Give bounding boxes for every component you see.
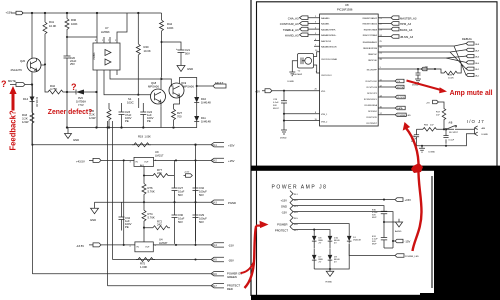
svg-text:R43: R43 bbox=[22, 113, 28, 117]
svg-text:0.1uF: 0.1uF bbox=[449, 140, 455, 142]
wire C27 col vertical bbox=[175, 160, 177, 202]
svg-text:Q18: Q18 bbox=[151, 81, 157, 85]
svg-text:+15V: +15V bbox=[6, 10, 13, 14]
connector J8 pin chevrons bbox=[290, 191, 293, 230]
wire power led bbox=[349, 244, 395, 256]
MCU box border U8 page bbox=[257, 2, 498, 167]
svg-text:RED: RED bbox=[227, 287, 233, 291]
node -15V right tag bbox=[393, 239, 403, 248]
resistor R43 bbox=[30, 107, 34, 129]
svg-text:RB6/PGC: RB6/PGC bbox=[368, 54, 377, 56]
clock data powerled tags bbox=[378, 97, 395, 115]
transistor Q20 2SA1276 bbox=[27, 58, 41, 72]
svg-text:MLP: MLP bbox=[372, 244, 377, 246]
diode D8 bbox=[312, 236, 317, 241]
capacitor C28 bbox=[281, 91, 287, 130]
svg-text:GND: GND bbox=[187, 67, 193, 71]
svg-text:1.00K: 1.00K bbox=[145, 136, 152, 139]
annotation long S curve arrow bbox=[406, 128, 422, 251]
svg-text:C29: C29 bbox=[199, 213, 205, 217]
svg-text:-15V: -15V bbox=[281, 211, 287, 215]
ic U8 PIC16F1936 body bbox=[320, 14, 379, 126]
resistor R19 bbox=[132, 143, 151, 147]
ground DGND io bbox=[419, 146, 425, 152]
wire Q20 emitter down bbox=[31, 72, 33, 95]
POWERAMP-PAGE bbox=[272, 184, 420, 283]
resistor mclr pullup R bbox=[435, 64, 461, 75]
ground HGND bbox=[326, 269, 334, 276]
resistor R40 bbox=[136, 13, 140, 57]
svg-text:GND: GND bbox=[281, 205, 287, 209]
annotation amp mute arrow bbox=[407, 81, 442, 91]
node J8-4 tag bbox=[211, 243, 224, 247]
svg-text:RB5/KBI1/PGM: RB5/KBI1/PGM bbox=[363, 48, 377, 50]
wire R72-U4 adj bbox=[143, 228, 145, 242]
svg-text:ADJ: ADJ bbox=[140, 164, 144, 167]
svg-text:Feedback?: Feedback? bbox=[9, 110, 18, 150]
svg-text:POWER AMP J8: POWER AMP J8 bbox=[272, 184, 328, 190]
black mask rectangle right of power amp page bbox=[434, 170, 500, 300]
svg-text:R36: R36 bbox=[71, 18, 77, 22]
capacitor E30 bbox=[381, 211, 387, 248]
svg-text:RA5/AN4/SS/LVD: RA5/AN4/SS/LVD bbox=[321, 46, 337, 49]
wire power-on line bbox=[32, 273, 211, 275]
svg-text:+5V: +5V bbox=[255, 90, 260, 94]
svg-text:AGND: AGND bbox=[395, 230, 402, 233]
resistor R42 bbox=[45, 64, 67, 94]
resistor R77 bbox=[151, 174, 174, 178]
wire U7 pin to +15 rail bbox=[96, 13, 98, 37]
svg-text:D10: D10 bbox=[201, 97, 207, 101]
svg-text:9V6: 9V6 bbox=[78, 96, 83, 100]
svg-text:243: 243 bbox=[157, 223, 162, 227]
svg-text:J8-6: J8-6 bbox=[212, 273, 217, 276]
thick divider bar bbox=[251, 166, 500, 171]
wire R40 down bbox=[137, 57, 139, 95]
svg-text:RB0/INT0/AN12: RB0/INT0/AN12 bbox=[363, 17, 378, 20]
svg-text:RC4/SDI/SDA: RC4/SDI/SDA bbox=[364, 104, 377, 107]
svg-text:PE: PE bbox=[147, 119, 151, 123]
svg-text:DGND: DGND bbox=[429, 152, 436, 154]
wire +43.5V to U9 bbox=[101, 159, 134, 161]
wire fault tag line bbox=[197, 85, 214, 87]
wire -43.5V to U4 bbox=[101, 244, 135, 246]
svg-text:C30: C30 bbox=[178, 213, 184, 217]
node +5V mclr tag bbox=[429, 68, 435, 70]
svg-text:25V: 25V bbox=[70, 62, 75, 66]
svg-text:R44: R44 bbox=[167, 22, 173, 26]
svg-text:+5V: +5V bbox=[426, 102, 430, 104]
svg-text:MLCC: MLCC bbox=[273, 108, 280, 110]
svg-text:R40: R40 bbox=[144, 45, 150, 49]
svg-text:HI-MID_A3: HI-MID_A3 bbox=[285, 34, 299, 38]
wire vert x123.7 bbox=[123, 160, 125, 245]
svg-text:10.0K: 10.0K bbox=[448, 78, 454, 80]
wire vert x195.5 bbox=[195, 145, 197, 242]
svg-text:S1: S1 bbox=[128, 97, 132, 101]
crystal Y1 circuit bbox=[298, 54, 314, 69]
wire U4 out to J8-4 bbox=[153, 244, 211, 246]
svg-text:100uF: 100uF bbox=[199, 190, 207, 194]
capacitor C30 bbox=[172, 202, 178, 244]
svg-text:100K: 100K bbox=[167, 26, 174, 30]
svg-text:50V: 50V bbox=[199, 220, 204, 224]
svg-text:OSC1/CLKI: OSC1/CLKI bbox=[321, 75, 332, 77]
svg-text:RC6/TX/CK: RC6/TX/CK bbox=[367, 117, 378, 119]
svg-text:RA2/AN2/VREF-: RA2/AN2/VREF- bbox=[321, 28, 336, 31]
svg-text:POWER_LED: POWER_LED bbox=[405, 256, 419, 258]
svg-text:RB2/INT2/AN8: RB2/INT2/AN8 bbox=[364, 28, 378, 31]
capacitor C34 bbox=[119, 202, 125, 230]
node J8-5 tag bbox=[211, 257, 224, 261]
capacitor C36 left bbox=[414, 129, 419, 144]
svg-text:10uF: 10uF bbox=[178, 190, 185, 194]
svg-text:GREEN: GREEN bbox=[227, 275, 237, 279]
wire io bottom bbox=[417, 134, 475, 146]
mclr pullup bbox=[378, 68, 435, 70]
svg-text:5.76K: 5.76K bbox=[148, 190, 155, 194]
bottom black bar bbox=[251, 295, 500, 300]
svg-text:PROTECT: PROTECT bbox=[227, 283, 240, 287]
svg-text:3.2K: 3.2K bbox=[22, 117, 28, 121]
svg-text:CHA_A3: CHA_A3 bbox=[288, 16, 299, 20]
svg-text:LM393: LM393 bbox=[101, 30, 110, 34]
wire protect vertical bbox=[107, 121, 109, 286]
svg-text:CONTOUR_A3: CONTOUR_A3 bbox=[280, 22, 299, 26]
svg-text:BASS_A3: BASS_A3 bbox=[400, 28, 413, 32]
output tags bbox=[391, 16, 399, 38]
resistor R36 bbox=[65, 13, 69, 37]
wire R43 down to gnd bus bbox=[31, 129, 33, 145]
svg-text:POWER_LED: POWER_LED bbox=[397, 115, 411, 117]
svg-text:100uF: 100uF bbox=[199, 217, 207, 221]
svg-text:RA3/AN3/VREF+: RA3/AN3/VREF+ bbox=[321, 34, 337, 37]
transistor Q19 bbox=[169, 83, 184, 98]
wire U7 out right bend bbox=[117, 13, 127, 37]
resistor R76 bbox=[142, 176, 146, 203]
wire R36 to C20 bbox=[67, 36, 97, 54]
node fault line bbox=[180, 78, 197, 92]
svg-text:DGND: DGND bbox=[288, 81, 295, 83]
svg-text:VDD: VDD bbox=[321, 91, 326, 93]
resistor R17 bbox=[442, 108, 446, 130]
wires inputs to ic pins bbox=[308, 18, 320, 47]
MCU-PAGE bbox=[255, 3, 488, 154]
svg-text:U9: U9 bbox=[155, 150, 159, 154]
svg-text:1N756A: 1N756A bbox=[76, 100, 86, 104]
svg-text:+15V: +15V bbox=[184, 172, 190, 174]
node POWER_LED tag bbox=[395, 254, 404, 258]
svg-text:RB1/INT1/AN10: RB1/INT1/AN10 bbox=[363, 23, 378, 26]
black bar notch bbox=[420, 293, 434, 300]
wire page divider vertical line bbox=[250, 0, 252, 296]
wire J8-4 -15v to right bbox=[293, 212, 395, 241]
svg-text:POWER: POWER bbox=[277, 223, 287, 227]
svg-text:DGND: DGND bbox=[280, 138, 287, 140]
svg-text:?: ? bbox=[1, 79, 7, 89]
diode D1 bbox=[347, 236, 352, 241]
svg-text:R75: R75 bbox=[140, 262, 146, 266]
svg-text:J8-3: J8-3 bbox=[212, 201, 217, 204]
svg-text:R27: R27 bbox=[177, 111, 183, 115]
svg-text:RC1/T1OSI: RC1/T1OSI bbox=[367, 87, 378, 89]
RED-ANNOTATIONS bbox=[1, 79, 493, 288]
ground DGND vdd bbox=[281, 130, 287, 134]
wire diode bottom bus bbox=[314, 244, 349, 269]
svg-text:PIC16F1936: PIC16F1936 bbox=[337, 8, 353, 12]
svg-text:+15V: +15V bbox=[281, 199, 288, 203]
svg-text:+35V: +35V bbox=[228, 144, 235, 148]
diode D10 bbox=[194, 97, 199, 103]
svg-text:5.76K: 5.76K bbox=[148, 216, 155, 220]
wire to Q20 bbox=[31, 13, 33, 58]
svg-text:1.00K: 1.00K bbox=[140, 265, 147, 269]
wire J8-3 gnd to caps bbox=[293, 206, 384, 212]
wire C20 col to bus bbox=[66, 92, 68, 128]
ground pgnd bbox=[91, 202, 99, 214]
svg-text:-15V: -15V bbox=[228, 244, 234, 248]
wire U9 adj down bbox=[144, 166, 151, 175]
svg-text:CLOCK: CLOCK bbox=[397, 97, 405, 99]
capacitor C21 bbox=[178, 47, 185, 56]
svg-text:MCLR/VPP: MCLR/VPP bbox=[367, 70, 378, 72]
annotation feedback arrow bbox=[12, 92, 15, 111]
svg-text:C21: C21 bbox=[185, 48, 191, 52]
svg-text:U8: U8 bbox=[345, 3, 349, 7]
diode D11 bbox=[194, 116, 199, 122]
svg-text:LM317: LM317 bbox=[155, 154, 164, 158]
svg-text:243: 243 bbox=[157, 171, 162, 175]
diode D9 bbox=[328, 255, 333, 260]
capacitor mclr bbox=[415, 69, 421, 83]
svg-text:R19: R19 bbox=[138, 135, 144, 139]
svg-text:D11: D11 bbox=[201, 116, 206, 120]
svg-text:+15V: +15V bbox=[228, 159, 235, 163]
svg-text:HPM_A3: HPM_A3 bbox=[400, 22, 411, 26]
svg-text:DGND: DGND bbox=[482, 134, 489, 136]
svg-text:FAULT: FAULT bbox=[215, 81, 224, 85]
capacitor C29 bbox=[193, 202, 199, 244]
svg-text:C27: C27 bbox=[178, 186, 184, 190]
resistor R45 bbox=[107, 103, 111, 128]
resistor R27 bbox=[172, 104, 176, 126]
svg-text:MUTE: MUTE bbox=[8, 79, 16, 83]
svg-text:J8-1: J8-1 bbox=[212, 144, 217, 147]
node J8-1 tag bbox=[211, 143, 224, 147]
svg-text:DGND: DGND bbox=[412, 85, 419, 87]
svg-text:RC2/CCP1: RC2/CCP1 bbox=[367, 93, 378, 95]
svg-text:POWER ON: POWER ON bbox=[227, 271, 242, 275]
svg-text:A/B: A/B bbox=[449, 122, 453, 125]
wire J8-7 protect bbox=[293, 230, 314, 236]
svg-text:RC7/RX/DT: RC7/RX/DT bbox=[366, 123, 377, 125]
svg-text:10uF: 10uF bbox=[178, 217, 185, 221]
svg-text:10.0K: 10.0K bbox=[144, 49, 151, 53]
svg-text:GND: GND bbox=[90, 218, 96, 222]
ground C21 bbox=[177, 56, 185, 72]
wire U7 pin3 down col bbox=[96, 75, 98, 128]
svg-text:SD SPST: SD SPST bbox=[449, 132, 459, 134]
wire J8-6 power bbox=[293, 224, 349, 236]
svg-text:D14: D14 bbox=[23, 97, 29, 101]
svg-text:C32: C32 bbox=[199, 186, 205, 190]
svg-text:50V: 50V bbox=[178, 220, 183, 224]
svg-text:+15V: +15V bbox=[405, 198, 412, 202]
svg-text:RC3/SCK/SCL: RC3/SCK/SCL bbox=[364, 99, 378, 101]
capacitor C24 bbox=[140, 103, 146, 128]
svg-text:CS: CS bbox=[397, 81, 401, 83]
svg-text:PE: PE bbox=[125, 225, 129, 229]
connector J7 chevrons bbox=[475, 126, 478, 136]
capacitor C27 bbox=[172, 160, 178, 202]
svg-text:?: ? bbox=[71, 82, 77, 92]
svg-text:MUTE: MUTE bbox=[397, 87, 404, 89]
svg-text:MPSA06: MPSA06 bbox=[148, 85, 159, 89]
diode D10 bbox=[328, 236, 333, 241]
svg-text:J8-2: J8-2 bbox=[212, 160, 217, 163]
svg-text:TREBLE_A3: TREBLE_A3 bbox=[283, 28, 299, 32]
transistor Q18 bbox=[151, 89, 166, 104]
resistor R75 bbox=[136, 258, 155, 262]
svg-text:LM393: LM393 bbox=[93, 52, 96, 60]
svg-text:2SA1276: 2SA1276 bbox=[11, 68, 23, 72]
svg-text:I/O J7: I/O J7 bbox=[467, 119, 485, 124]
diode D7 bbox=[312, 255, 317, 260]
node J8-2 tag bbox=[211, 158, 224, 162]
node FAULT tag bbox=[213, 84, 226, 88]
svg-text:RA0/AN0: RA0/AN0 bbox=[321, 17, 330, 20]
wire feedback vertical long bbox=[31, 85, 33, 274]
node J8-7 tag bbox=[211, 284, 224, 288]
svg-text:JB-MS_A3: JB-MS_A3 bbox=[400, 35, 414, 39]
wire protect line bbox=[108, 285, 212, 287]
wire +5V to VDD pin20 bbox=[272, 90, 320, 92]
svg-text:Q20: Q20 bbox=[20, 59, 26, 63]
cs mute pins tags bbox=[378, 81, 395, 87]
svg-text:RA1/AN1: RA1/AN1 bbox=[321, 23, 330, 26]
svg-text:R41: R41 bbox=[49, 20, 55, 24]
svg-text:RB7/PGD: RB7/PGD bbox=[368, 60, 377, 62]
svg-text:-15V: -15V bbox=[405, 240, 411, 244]
svg-text:100K: 100K bbox=[71, 22, 78, 26]
capacitor C32 bbox=[193, 160, 199, 202]
svg-text:4.00 MHZ: 4.00 MHZ bbox=[293, 74, 303, 76]
wire Q18 emitter to bus bbox=[160, 106, 162, 127]
svg-text:Q19: Q19 bbox=[181, 81, 187, 85]
svg-text:0.1uF: 0.1uF bbox=[273, 102, 279, 104]
resistor R56 bbox=[417, 128, 446, 132]
svg-text:HGND: HGND bbox=[326, 282, 333, 284]
node J8-3 tag bbox=[211, 200, 224, 204]
resistor R44 bbox=[160, 13, 164, 33]
wire MUTE to junction bbox=[25, 84, 32, 86]
svg-text:MASTER_A3: MASTER_A3 bbox=[400, 16, 417, 20]
wire vert x112.5 bbox=[112, 121, 114, 260]
svg-text:1N4148: 1N4148 bbox=[201, 101, 211, 105]
svg-text:1/4W: 1/4W bbox=[89, 116, 96, 120]
annotation power arrow curve bbox=[245, 226, 257, 288]
gnd bus y127.5 bbox=[67, 127, 197, 129]
svg-text:103C: 103C bbox=[127, 101, 134, 105]
svg-text:10.0K: 10.0K bbox=[49, 24, 56, 28]
svg-text:GND: GND bbox=[73, 138, 79, 142]
svg-text:LM337: LM337 bbox=[159, 241, 168, 245]
svg-text:PROTECT: PROTECT bbox=[275, 229, 288, 233]
resistor R41 bbox=[41, 13, 47, 65]
svg-text:U7: U7 bbox=[105, 26, 109, 30]
svg-text:50V: 50V bbox=[199, 193, 204, 197]
wire R44 down to Q area bbox=[161, 33, 163, 78]
svg-text:MLP: MLP bbox=[372, 217, 377, 219]
svg-text:1/4W: 1/4W bbox=[22, 120, 29, 124]
svg-text:R76: R76 bbox=[148, 186, 154, 190]
svg-text:50V: 50V bbox=[178, 193, 183, 197]
wire U7 pin1 down to Q18 base bbox=[104, 74, 151, 95]
svg-text:MPSA06: MPSA06 bbox=[183, 85, 194, 89]
svg-text:DATA: DATA bbox=[397, 107, 403, 110]
wire -35V line bbox=[113, 259, 212, 261]
debug fan tags bbox=[466, 42, 474, 77]
svg-text:OUT: OUT bbox=[145, 247, 150, 249]
svg-text:1N4148: 1N4148 bbox=[353, 240, 361, 242]
wire U9 out to J8-2 bbox=[154, 159, 212, 161]
svg-text:OSC2/CLKO/RA6: OSC2/CLKO/RA6 bbox=[321, 58, 338, 61]
svg-text:RA4/T0CKI: RA4/T0CKI bbox=[321, 40, 332, 43]
svg-text:-43.5V: -43.5V bbox=[76, 244, 84, 248]
svg-text:PGND: PGND bbox=[228, 201, 236, 205]
wire pgnd bus bbox=[95, 201, 212, 203]
ground sym left bus bbox=[65, 128, 72, 139]
svg-text:VSS_1: VSS_1 bbox=[321, 114, 328, 116]
diode D14 bbox=[30, 97, 35, 102]
capacitor C20 bbox=[64, 54, 71, 92]
resistor R74 bbox=[142, 202, 146, 228]
wire +15V rail bbox=[22, 12, 162, 14]
node +15V mini tag bbox=[184, 174, 193, 178]
svg-text:-35V: -35V bbox=[228, 258, 234, 262]
zener diode VR6 1N756A bbox=[67, 91, 97, 93]
wire J8-2 +15V to right tag bbox=[293, 199, 395, 201]
svg-text:DEBUG: DEBUG bbox=[462, 37, 472, 41]
svg-text:RC0/T1OSO: RC0/T1OSO bbox=[366, 81, 378, 83]
wire to C21 bbox=[162, 42, 182, 47]
svg-text:A/B: A/B bbox=[482, 127, 486, 130]
svg-text:RB3/CCP2/AN9: RB3/CCP2/AN9 bbox=[363, 34, 378, 37]
svg-text:J8-7: J8-7 bbox=[212, 285, 217, 288]
svg-text:+43.5V: +43.5V bbox=[76, 159, 85, 163]
wire Q19 emitter to R27 bbox=[174, 100, 180, 128]
power amp page left border bbox=[256, 171, 258, 295]
power amp page right border bbox=[431, 176, 433, 288]
annotation bar crossing blob bbox=[411, 163, 423, 173]
wire E31 bottom to -15 node bbox=[384, 247, 393, 249]
capacitor io 0.1uF bbox=[443, 129, 455, 139]
svg-text:Amp mute all: Amp mute all bbox=[450, 88, 493, 97]
wire horizontal bus y144.7 to J8-1 bbox=[32, 144, 211, 146]
LEFT-SCHEMATIC bbox=[6, 10, 243, 291]
svg-text:RB4/KBI0/AN11: RB4/KBI0/AN11 bbox=[363, 41, 378, 44]
svg-text:RC5/SDO: RC5/SDO bbox=[368, 111, 377, 113]
svg-text:VSS_2: VSS_2 bbox=[321, 122, 328, 124]
capacitor C23 bbox=[119, 103, 125, 128]
svg-text:700: 700 bbox=[177, 115, 182, 119]
svg-text:4.75K: 4.75K bbox=[50, 87, 57, 91]
svg-text:J8-5: J8-5 bbox=[212, 259, 217, 262]
svg-text:OUT: OUT bbox=[144, 162, 149, 164]
svg-text:1N4148: 1N4148 bbox=[35, 97, 39, 107]
resistor R72 bbox=[144, 226, 170, 230]
node +15V right tag bbox=[395, 198, 403, 202]
